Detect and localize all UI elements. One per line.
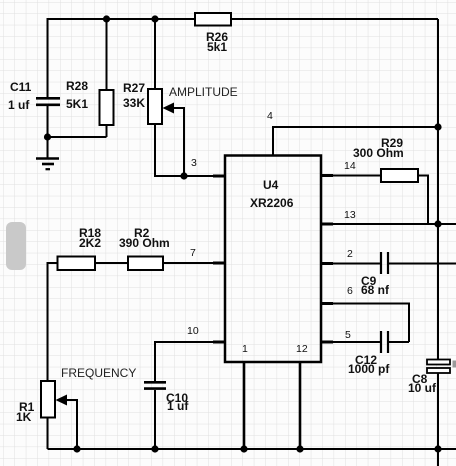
wire top rail right segment <box>231 18 438 20</box>
capacitor C8 (electrolytic) plates <box>427 360 450 374</box>
node bottom wiper <box>73 445 80 452</box>
resistor R2 <box>128 257 163 271</box>
wire C11 to R28 bottom <box>48 125 107 137</box>
svg-text:12: 12 <box>296 343 308 355</box>
wire pin 4 <box>273 127 438 156</box>
svg-text:10: 10 <box>187 325 199 337</box>
wire pin 14 to R29 <box>321 175 381 177</box>
wire pin 1 <box>243 362 246 449</box>
wire C11 bottom lead <box>47 106 49 137</box>
wire pin 2 to C9 <box>321 263 380 265</box>
op IC U4 XR2206 box <box>225 156 321 363</box>
ground stem <box>47 137 49 158</box>
wire R2 to pin 7 <box>163 262 225 264</box>
wire R27 top lead <box>154 19 156 89</box>
svg-text:14: 14 <box>344 160 356 172</box>
svg-text:1: 1 <box>242 343 248 355</box>
wire left rail (pin 7 row to R1) <box>48 263 58 381</box>
wire R28 top lead <box>106 19 108 90</box>
wire C12 right <box>389 341 409 343</box>
wire R27 bottom to pin 3 <box>155 124 225 176</box>
wire pin 5 to C12 <box>321 341 380 343</box>
svg-text:4: 4 <box>267 110 273 122</box>
svg-text:R27: R27 <box>123 81 145 95</box>
svg-text:1000 pf: 1000 pf <box>348 362 390 376</box>
svg-text:300 Ohm: 300 Ohm <box>353 146 404 160</box>
node wiper pin3 <box>180 172 187 179</box>
svg-text:2K2: 2K2 <box>79 236 101 250</box>
node C11 ground <box>44 133 51 140</box>
svg-text:68 nf: 68 nf <box>361 283 390 297</box>
wire pin 6 <box>321 304 409 343</box>
potentiometer R27 body <box>148 89 162 124</box>
svg-text:3: 3 <box>191 157 197 169</box>
potentiometer R1 arrow <box>56 395 68 406</box>
resistor R26 <box>195 13 231 26</box>
wire C10 bottom lead <box>154 390 156 449</box>
svg-text:10 uf: 10 uf <box>408 381 437 395</box>
potentiometer R1 body <box>41 381 55 418</box>
capacitor C10 plates <box>144 382 166 388</box>
wire pin 13 <box>321 223 456 225</box>
wire R18 to R2 <box>95 262 128 264</box>
potentiometer R27 arrow <box>163 103 175 114</box>
node bottom pin1 <box>240 445 247 452</box>
svg-text:5k1: 5k1 <box>207 40 227 54</box>
node bottom pin12 <box>296 445 303 452</box>
ground <box>36 159 59 170</box>
svg-text:U4: U4 <box>263 178 279 192</box>
svg-text:1 uf: 1 uf <box>167 399 189 413</box>
wire R1 bottom lead <box>47 418 49 450</box>
wire R29 to pin13 row <box>418 176 428 225</box>
pin stubs <box>213 176 333 343</box>
wire pin 10 to C10 <box>155 342 225 381</box>
wire top rail left segment <box>48 19 196 97</box>
wire right rail upper <box>437 19 439 360</box>
wire pin 12 <box>299 362 302 449</box>
svg-text:5: 5 <box>345 329 351 341</box>
svg-text:390 Ohm: 390 Ohm <box>119 236 170 250</box>
svg-text:C11: C11 <box>10 80 32 94</box>
wire right rail lower <box>437 373 439 466</box>
svg-text:6: 6 <box>347 285 353 297</box>
svg-text:1 uf: 1 uf <box>8 98 30 112</box>
wire R1 wiper arm <box>67 400 77 449</box>
resistor R28 <box>100 90 114 125</box>
node top R28 <box>103 15 110 22</box>
capacitor C9 plates <box>381 252 388 274</box>
svg-text:FREQUENCY: FREQUENCY <box>61 366 136 380</box>
svg-text:33K: 33K <box>123 96 145 110</box>
capacitor C12 plates <box>381 331 388 353</box>
edge text fragment <box>453 361 456 368</box>
capacitor C11 plates <box>36 98 60 105</box>
resistor R18 <box>58 257 96 271</box>
wire R27 wiper arm <box>172 108 184 176</box>
node pin4 rail <box>434 123 441 130</box>
svg-text:7: 7 <box>190 247 196 259</box>
node pin13 rail <box>434 220 441 227</box>
node bottom rail <box>434 445 441 452</box>
wire C9 right <box>389 263 456 265</box>
node bottom C10 <box>151 445 158 452</box>
svg-text:R28: R28 <box>66 79 88 93</box>
svg-text:XR2206: XR2206 <box>250 196 294 210</box>
scrollbar thumb (left UI fragment) <box>6 222 26 270</box>
svg-text:5K1: 5K1 <box>66 97 88 111</box>
svg-text:2: 2 <box>347 248 353 260</box>
svg-text:13: 13 <box>344 209 356 221</box>
svg-text:AMPLITUDE: AMPLITUDE <box>169 85 238 99</box>
svg-text:1K: 1K <box>16 410 32 424</box>
node top R27 <box>151 15 158 22</box>
wire bottom rail <box>48 448 456 450</box>
resistor R29 <box>381 169 418 182</box>
